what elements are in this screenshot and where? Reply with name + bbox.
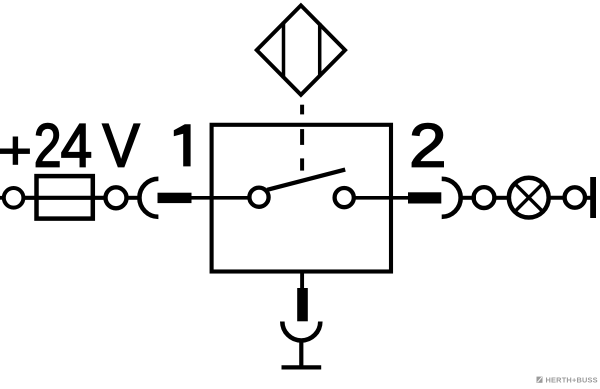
connector socket (female half-circle, open left) [442, 179, 461, 217]
connector socket (female half-circle, open right) [139, 179, 158, 217]
switch contact circle (right) [335, 188, 354, 207]
wire: terminal to connector socket [127, 196, 139, 200]
connector pin (male blade into box, terminal 1) [158, 193, 192, 203]
fuse F1 body [37, 176, 93, 219]
wire: terminal to end bar [584, 196, 591, 200]
label pin 1 [174, 124, 191, 166]
wire: socket to ground [299, 341, 303, 367]
logo icon square [537, 377, 543, 383]
terminal end bar (right edge) [590, 177, 596, 218]
dashed actuator link (dash 2) [300, 129, 304, 145]
wire: pin to switch box [191, 196, 212, 200]
switch box S1 outline [212, 125, 391, 272]
ground symbol bar [282, 365, 322, 369]
svg-text:2: 2 [34, 112, 62, 180]
actuator diamond symbol outline [257, 5, 345, 94]
diamond inner chord (left) [282, 22, 286, 79]
terminal circle (after fuse) [106, 187, 127, 208]
svg-text:4: 4 [61, 113, 93, 180]
switch lever (open) [267, 170, 345, 190]
wire: box bottom to pin [300, 272, 304, 290]
wire: terminal to fuse, through fuse body, to next terminal [23, 196, 105, 200]
lamp cross stroke 2 [516, 185, 542, 211]
lamp E1 circle [509, 178, 549, 218]
svg-text:HERTH+BUSS: HERTH+BUSS [546, 376, 598, 385]
wire: terminal to lamp [495, 196, 509, 200]
terminal circle (before lamp) [474, 187, 495, 208]
label +24V plus sign [0, 137, 30, 165]
dashed actuator link (dash 3) [300, 158, 304, 170]
wire: box left edge to switch contact [212, 196, 249, 200]
wire: socket to terminal circle [461, 196, 476, 200]
svg-text:V: V [102, 112, 139, 180]
wire: lamp to right terminal [549, 196, 565, 200]
diamond inner chord (right) [318, 23, 322, 77]
svg-text:2: 2 [409, 111, 446, 179]
connector socket (female half-circle, open up) [282, 322, 320, 341]
connector pin (male blade, ground branch) [297, 288, 308, 321]
lamp cross stroke 1 [516, 185, 542, 211]
connector pin (male blade out of box, terminal 2) [408, 192, 441, 203]
terminal circle (ground side) [565, 187, 585, 207]
wire: left edge stub to terminal [0, 196, 4, 200]
terminal circle (battery side) [4, 188, 24, 208]
wire: right contact through box edge to pin [355, 196, 409, 200]
dashed actuator link (dash 1) [300, 105, 304, 115]
switch contact circle (left) [249, 188, 268, 207]
